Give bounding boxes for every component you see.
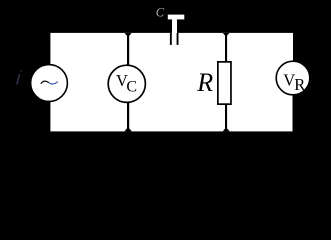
wire R bottom [225,104,227,132]
wire V_R top [293,33,295,63]
junction R bottom [223,129,230,132]
wire V_C bottom [127,101,129,132]
svg-text:R: R [196,68,213,97]
junction V_C top [125,33,132,36]
svg-text:R: R [294,75,305,94]
capacitor C1 right plate [177,33,179,45]
voltmeter V_R circle [276,61,310,95]
circuit body (white panel; its edges form the outer loop wires) [50,33,293,131]
label i (faint, left of source) [17,70,22,85]
capacitor C1 top bar (white) [168,15,185,20]
svg-text:C: C [156,5,165,19]
junction R top [223,33,230,35]
AC source circle [31,65,68,102]
wire V_C top [127,33,129,67]
capacitor C1 gap stem (white) [172,19,177,33]
svg-text:C: C [126,78,137,95]
AC tilde right half (bluish) [49,82,58,84]
voltmeter V_C circle [108,65,145,102]
wire V_R bottom [293,93,295,132]
resistor R box [218,62,231,104]
junction V_C bottom [124,129,131,132]
capacitor C1 left plate [170,33,172,45]
wire R top [225,33,227,63]
AC tilde left half [41,81,49,84]
